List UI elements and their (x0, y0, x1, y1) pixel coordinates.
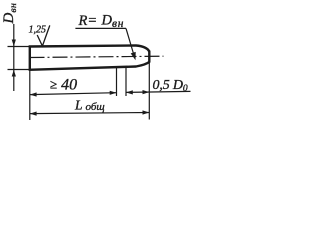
arrowhead left (30, 92, 37, 96)
witness line at start of nose (125, 67, 127, 96)
arrowhead up at bottom witness (12, 70, 16, 77)
arrowhead down at top witness (12, 40, 16, 47)
dimension Dvn vertical line (13, 24, 15, 91)
arrowhead right (143, 90, 150, 94)
part outline: cylindrical rod with domed nose (29, 46, 150, 71)
witness line top-left (8, 46, 30, 48)
svg-text:0,5 D0: 0,5 D0 (153, 78, 188, 94)
leader arrowhead (131, 52, 136, 60)
leader to nose radius (126, 28, 134, 56)
dimension 0,5 D0 line with shelf (126, 91, 191, 92)
arrowhead left (126, 90, 133, 94)
arrowhead left (30, 112, 37, 116)
witness line at end of >=40 span (116, 68, 118, 97)
svg-text:R=: R= (78, 13, 98, 29)
label Dvn rotated (1, 3, 19, 25)
svg-text:L: L (74, 98, 83, 113)
arrowhead right (143, 110, 150, 114)
witness line below tip (148, 63, 150, 120)
witness line below left edge (29, 71, 31, 120)
dimension >=40 line (30, 93, 117, 95)
arrowhead right (110, 91, 117, 95)
svg-text:общ: общ (86, 101, 105, 113)
roughness mark check (37, 25, 50, 46)
svg-text:≥ 40: ≥ 40 (50, 77, 77, 94)
centerline (dash-dot axis) (30, 56, 164, 57)
witness line bottom-left (8, 69, 30, 71)
dimension L obsh line (30, 113, 150, 114)
svg-text:1,25: 1,25 (29, 24, 47, 35)
